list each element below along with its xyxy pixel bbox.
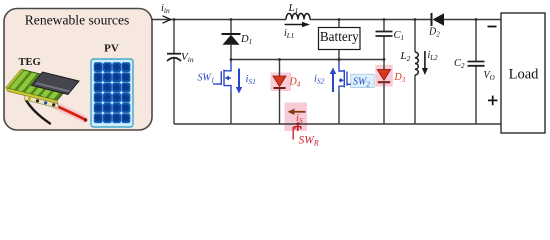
wire battery bottom stub	[338, 50, 340, 63]
current iin arrow	[163, 16, 171, 23]
node SW2 mid	[338, 58, 341, 61]
current iL1 arrow	[285, 22, 311, 27]
node Vin top	[173, 18, 176, 21]
node mid rail left	[230, 58, 233, 61]
wire SW1 branch lower	[230, 92, 232, 124]
wire top rail middle segment	[310, 19, 432, 21]
renewable sources box	[4, 9, 152, 131]
diode D1	[222, 34, 241, 45]
pink highlight behind D4	[271, 73, 292, 92]
current iS2 arrow	[330, 68, 336, 93]
wire battery top stub	[338, 20, 340, 28]
inductor L1	[286, 14, 310, 20]
MOSFET SW_R	[293, 124, 301, 140]
node D4 top	[278, 58, 281, 61]
wire SW2 branch lower	[338, 92, 340, 124]
diode D2	[432, 13, 445, 26]
capacitor Vin	[167, 54, 181, 61]
svg-text:Battery: Battery	[320, 29, 359, 44]
load box	[501, 13, 545, 133]
wire D4 branch	[279, 60, 281, 77]
svg-text:TEG: TEG	[19, 57, 41, 68]
diode D4	[273, 76, 286, 88]
node D1 top	[230, 18, 233, 21]
pink highlight behind D3	[375, 65, 393, 87]
TEG module graphic	[6, 69, 88, 123]
wire Vin branch	[173, 20, 175, 54]
wire mid rail	[231, 59, 384, 61]
node SWR bottom	[296, 122, 299, 125]
MOSFET SW1	[213, 62, 231, 92]
current iS arrow	[288, 109, 306, 115]
MOSFET SW2	[351, 74, 374, 87]
svg-text:PV: PV	[104, 43, 119, 55]
wire top rail left segment	[152, 19, 286, 21]
wire top rail right segment	[444, 19, 501, 21]
inductor L2	[415, 52, 418, 75]
capacitor C2	[468, 62, 485, 66]
svg-text:Renewable sources: Renewable sources	[25, 13, 130, 28]
label plus	[488, 96, 498, 106]
current iL2 arrow	[422, 51, 428, 75]
svg-text:Load: Load	[509, 67, 540, 83]
current iS1 arrow	[236, 69, 242, 94]
wire bottom rail	[174, 123, 501, 125]
node dots	[173, 18, 478, 126]
wire D1 branch	[230, 20, 232, 35]
TEG black lead wire	[26, 100, 50, 124]
label minus	[488, 26, 497, 28]
PV panel	[91, 59, 133, 127]
wire D3 branch	[383, 60, 385, 70]
capacitor C1	[376, 32, 393, 37]
node D3 top	[383, 58, 386, 61]
TEG red lead wire	[54, 105, 84, 119]
node C2 top	[475, 18, 478, 21]
diode D3	[377, 70, 390, 83]
node battery top	[338, 18, 341, 21]
wire C1 branch	[383, 20, 385, 32]
pink highlight behind SW_R	[285, 103, 308, 132]
node L2 top	[414, 18, 417, 21]
node C1 top	[383, 18, 386, 21]
wire L2 branch	[414, 20, 416, 53]
battery box	[319, 28, 361, 50]
wire C2 branch	[475, 20, 477, 62]
